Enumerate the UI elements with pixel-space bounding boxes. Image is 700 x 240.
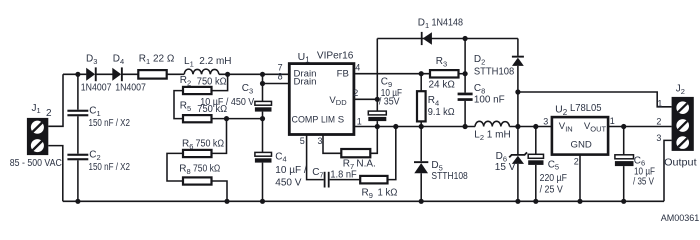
wire U2 GND to bottom rail	[579, 155, 581, 202]
U1 pin names COMP LIM S	[292, 114, 345, 125]
wire R2 left to R5 left	[174, 91, 183, 119]
svg-text:C2: C2	[89, 150, 100, 162]
junction dot bottom rail / C6	[621, 199, 626, 204]
resistor R9	[360, 176, 387, 184]
svg-text:FB: FB	[337, 68, 349, 79]
wire drain pin 8	[263, 83, 290, 85]
wire R2 right riser	[212, 74, 228, 90]
wire D2 anode to J2 pin1	[518, 92, 672, 107]
junction dot bottom rail / C2	[75, 199, 80, 204]
svg-text:85 - 500 VAC: 85 - 500 VAC	[10, 158, 62, 169]
R7 label N.A.	[343, 159, 376, 171]
svg-text:15 V: 15 V	[495, 162, 516, 173]
wire C3 column top	[262, 74, 264, 101]
svg-text:2: 2	[656, 116, 661, 126]
svg-text:/ 25 V: / 25 V	[540, 184, 563, 195]
svg-text:S: S	[338, 114, 344, 125]
C4 value 10uF/450V	[275, 165, 307, 189]
svg-text:3: 3	[656, 133, 661, 143]
junction dot top rail / C1	[75, 72, 80, 77]
svg-text:D1: D1	[418, 18, 429, 30]
capacitor C9 (electrolytic)	[368, 99, 386, 126]
svg-text:R6: R6	[182, 139, 193, 151]
inductor L1	[184, 69, 219, 74]
diode D3	[86, 67, 97, 81]
wire VOUT to J2 pin2	[608, 126, 672, 128]
svg-text:750 kΩ: 750 kΩ	[197, 76, 227, 87]
resistor R5	[183, 115, 212, 122]
svg-text:1 kΩ: 1 kΩ	[378, 187, 398, 198]
capacitor C1	[67, 74, 88, 153]
inductor L2	[475, 121, 509, 126]
junction dot S / C8	[463, 124, 468, 129]
capacitor C5 (electrolytic)	[528, 127, 543, 202]
svg-text:Drain: Drain	[294, 77, 317, 88]
wire D1 top line	[377, 38, 518, 40]
junction dot bottom rail / R8	[224, 199, 229, 204]
diode D1	[421, 32, 432, 45]
diode D2	[512, 39, 524, 127]
wire C7 to R9	[330, 179, 361, 181]
svg-text:C8: C8	[474, 83, 485, 95]
svg-text:LIM: LIM	[321, 114, 335, 125]
wire R5 right to C3/C4 midpoint	[212, 118, 263, 120]
svg-text:10 µF / 450 V: 10 µF / 450 V	[200, 97, 254, 108]
svg-text:R7: R7	[343, 159, 354, 171]
svg-text:R9: R9	[362, 187, 373, 199]
junction dot R3 / C8 column	[463, 71, 468, 76]
svg-text:450 V: 450 V	[275, 178, 301, 189]
J1 label	[32, 103, 53, 119]
svg-text:Output: Output	[664, 158, 697, 169]
wire D1 cathode column (crosses FB wire)	[376, 39, 378, 100]
junction dot VOUT / C6	[621, 124, 626, 129]
op-amp U1 VIPer16 IC body	[289, 64, 354, 135]
svg-text:R2: R2	[180, 75, 191, 87]
svg-text:1N4007: 1N4007	[81, 83, 112, 94]
svg-text:AM00361: AM00361	[661, 213, 700, 224]
resistor R7	[341, 149, 370, 157]
svg-text:R1 22 Ω: R1 22 Ω	[139, 54, 175, 66]
svg-text:STTH108: STTH108	[431, 171, 468, 182]
C5 value 220uF/25V	[540, 173, 567, 195]
capacitor C8 column wire	[464, 39, 466, 93]
top rail wire (input side)	[63, 73, 289, 75]
resistor R1	[138, 70, 166, 79]
svg-text:150 nF / X2: 150 nF / X2	[89, 162, 131, 173]
C9 value 10uF/35V	[379, 88, 402, 108]
bottom rail wire	[63, 200, 664, 202]
svg-text:220 µF: 220 µF	[540, 173, 567, 184]
svg-text:STTH108: STTH108	[474, 67, 515, 78]
junction dot VIN node / D2	[515, 124, 520, 129]
svg-text:750 kΩ: 750 kΩ	[193, 163, 221, 174]
svg-text:3: 3	[543, 117, 548, 127]
wire R8 right to bottom rail	[212, 181, 228, 201]
junction dot top rail / R2 riser	[225, 72, 230, 77]
wire COMP pin5 to C7	[307, 135, 324, 180]
svg-text:D3: D3	[86, 54, 97, 66]
svg-text:L2 1 mH: L2 1 mH	[474, 130, 510, 142]
wire bottom rail to J2 pin3	[664, 140, 672, 201]
svg-text:D4: D4	[113, 54, 124, 66]
zener diode D6	[509, 127, 527, 202]
wire VDD pin2	[354, 98, 377, 100]
svg-text:/ 35 V: / 35 V	[633, 177, 654, 188]
junction dot bottom rail / D6	[515, 199, 520, 204]
regulator U2 L78L05 body	[552, 117, 608, 155]
capacitor C6 (electrolytic)	[615, 127, 634, 202]
svg-text:1: 1	[657, 99, 662, 109]
svg-text:C1: C1	[89, 106, 100, 118]
junction dot pin8 wire	[260, 81, 265, 86]
junction dot C3/C4 midpoint	[260, 116, 265, 121]
wire R7 right riser to S	[370, 127, 377, 154]
svg-text:R8: R8	[179, 163, 190, 175]
junction dot bottom rail / C5	[533, 199, 538, 204]
svg-text:24 kΩ: 24 kΩ	[429, 80, 456, 91]
junction dot bottom rail / C4	[260, 199, 265, 204]
svg-text:R3: R3	[436, 56, 447, 68]
wire J1 pin2 to bottom rail	[48, 146, 63, 202]
R6 label 750 k	[182, 139, 225, 151]
svg-text:U2: U2	[555, 103, 568, 117]
junction dot S / R9 riser	[393, 124, 398, 129]
svg-text:150 nF / X2: 150 nF / X2	[89, 118, 131, 129]
R8 label 750 k	[179, 163, 220, 175]
junction dot S / R4 / D5	[419, 124, 424, 129]
svg-text:4: 4	[355, 62, 360, 72]
svg-text:L1 2.2 mH: L1 2.2 mH	[184, 56, 232, 68]
svg-text:R4: R4	[428, 95, 439, 107]
svg-text:N.A.: N.A.	[356, 159, 375, 170]
svg-text:COMP: COMP	[292, 114, 319, 125]
svg-text:J1: J1	[32, 103, 41, 115]
svg-text:J2: J2	[676, 84, 685, 96]
resistor R4 (vertical)	[417, 74, 426, 127]
junction dot VIN node / C5	[533, 124, 538, 129]
svg-text:100 nF: 100 nF	[474, 95, 505, 106]
junction dot top rail / C3 column	[260, 72, 265, 77]
connector J1	[27, 118, 48, 155]
svg-text:GND: GND	[571, 139, 592, 150]
wire LIM pin3 to R7	[323, 135, 341, 154]
wire R6 left to R8 left	[167, 153, 183, 181]
capacitor C3 (electrolytic)	[255, 101, 272, 152]
junction dot FB / R4	[419, 71, 424, 76]
diode D4	[112, 67, 123, 81]
wire FB pin4 to R3	[354, 73, 430, 75]
R5 label 750 k	[180, 101, 228, 115]
svg-text:2: 2	[353, 88, 358, 98]
svg-text:2: 2	[574, 156, 579, 166]
junction dot R5/R6 riser	[224, 116, 229, 121]
svg-text:/ 35V: / 35V	[379, 97, 400, 108]
junction dot bottom rail / U2 GND	[577, 199, 582, 204]
svg-text:750 kΩ: 750 kΩ	[196, 139, 225, 150]
wire J1 pin1 to top rail	[48, 74, 63, 126]
capacitor C8	[458, 93, 473, 127]
capacitor C7	[324, 172, 330, 188]
junction dot D1 line / C8 column	[463, 36, 468, 41]
svg-text:5: 5	[300, 136, 305, 146]
svg-text:L78L05: L78L05	[570, 102, 602, 114]
capacitor C4 (electrolytic)	[255, 152, 272, 201]
svg-text:C3: C3	[242, 83, 253, 95]
R2 label 750 k	[180, 75, 227, 87]
resistor R2	[183, 87, 212, 94]
svg-text:C4: C4	[275, 151, 286, 163]
svg-text:R5: R5	[180, 101, 191, 113]
svg-text:1: 1	[357, 116, 362, 126]
svg-text:1N4148: 1N4148	[432, 18, 464, 29]
svg-text:1: 1	[610, 116, 615, 126]
junction dot bottom rail / D5	[419, 199, 424, 204]
wire R6 right riser	[212, 119, 227, 154]
resistor R8	[183, 177, 212, 184]
diode D5	[414, 127, 428, 202]
svg-text:D2: D2	[474, 54, 485, 66]
svg-text:9.1 kΩ: 9.1 kΩ	[428, 107, 455, 118]
junction dot D2 / J2 pin1 wire	[515, 89, 520, 94]
svg-text:C7: C7	[312, 167, 323, 179]
connector J2	[672, 97, 694, 151]
junction dot S / C9 / R7 riser	[375, 124, 380, 129]
svg-text:8: 8	[278, 72, 283, 82]
capacitor C2	[67, 154, 88, 202]
svg-text:U1: U1	[298, 51, 311, 65]
svg-text:10 µF /: 10 µF /	[275, 165, 307, 176]
resistor R3	[430, 70, 459, 77]
junction dot VDD / D1 column	[375, 97, 380, 102]
C6 value 10uF/35V	[633, 167, 655, 188]
svg-text:2: 2	[46, 108, 52, 119]
wire R3 right	[459, 73, 466, 75]
svg-text:VIPer16: VIPer16	[317, 50, 354, 62]
wire R9 right riser to S	[388, 127, 396, 180]
svg-text:C5: C5	[548, 159, 559, 171]
svg-text:3: 3	[318, 136, 323, 146]
resistor R6	[183, 150, 212, 157]
svg-text:1N4007: 1N4007	[115, 83, 146, 94]
wire S rail (pin1 to VIN)	[354, 126, 552, 128]
